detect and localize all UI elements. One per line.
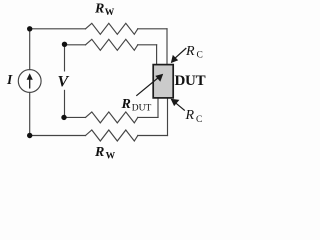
svg-text:R: R	[185, 108, 195, 123]
svg-text:V: V	[58, 74, 70, 91]
wire sense top-left horizontal	[65, 44, 86, 46]
wire sense bottom rise to DUT bottom	[157, 98, 159, 118]
wire right outer rise to DUT bottom	[167, 98, 169, 136]
node bottom-left junction	[27, 133, 32, 138]
DUT body rectangle	[153, 65, 173, 98]
leader arrow R_C bottom	[171, 99, 185, 111]
svg-text:W: W	[105, 8, 115, 18]
current source I1 circle	[18, 70, 41, 93]
wire sense bottom-left horizontal	[64, 116, 86, 118]
node sense top junction	[62, 42, 67, 47]
node top-left junction	[27, 26, 32, 31]
svg-text:R: R	[121, 97, 131, 112]
leader arrow R_DUT	[136, 74, 163, 96]
wire V branch upper segment	[64, 45, 66, 71]
svg-text:R: R	[94, 145, 104, 160]
svg-text:W: W	[106, 151, 116, 161]
svg-text:C: C	[197, 50, 203, 60]
wire bottom-right horizontal to corner	[138, 135, 168, 137]
resistor R_W top outer zigzag	[86, 23, 138, 34]
wire sense top-right horizontal to corner	[138, 44, 157, 46]
node sense bottom junction	[61, 115, 66, 120]
svg-text:I: I	[6, 72, 13, 87]
wire left rail bottom (source to node)	[29, 92, 31, 135]
svg-text:DUT: DUT	[132, 104, 152, 114]
wire V branch lower segment	[64, 90, 66, 117]
wire left rail top (node to source)	[29, 29, 31, 70]
resistor R_W sense bottom zigzag	[86, 112, 138, 123]
svg-text:R: R	[185, 44, 195, 59]
wire right outer drop to DUT top	[166, 29, 168, 65]
leader arrow R_C top	[171, 48, 187, 63]
resistor R_W bottom outer zigzag	[86, 130, 138, 141]
resistor R_W sense top zigzag	[86, 39, 138, 50]
svg-text:DUT: DUT	[175, 73, 206, 89]
wire sense right drop to DUT top	[156, 45, 158, 65]
current source arrow	[27, 73, 33, 88]
svg-text:C: C	[196, 115, 202, 125]
wire top-left horizontal (I loop)	[30, 28, 86, 30]
svg-text:R: R	[94, 2, 104, 17]
wire top-right horizontal to corner	[138, 28, 167, 30]
wire bottom-left horizontal (I loop)	[30, 135, 86, 137]
wire sense bottom-right horizontal to corner	[138, 116, 158, 118]
